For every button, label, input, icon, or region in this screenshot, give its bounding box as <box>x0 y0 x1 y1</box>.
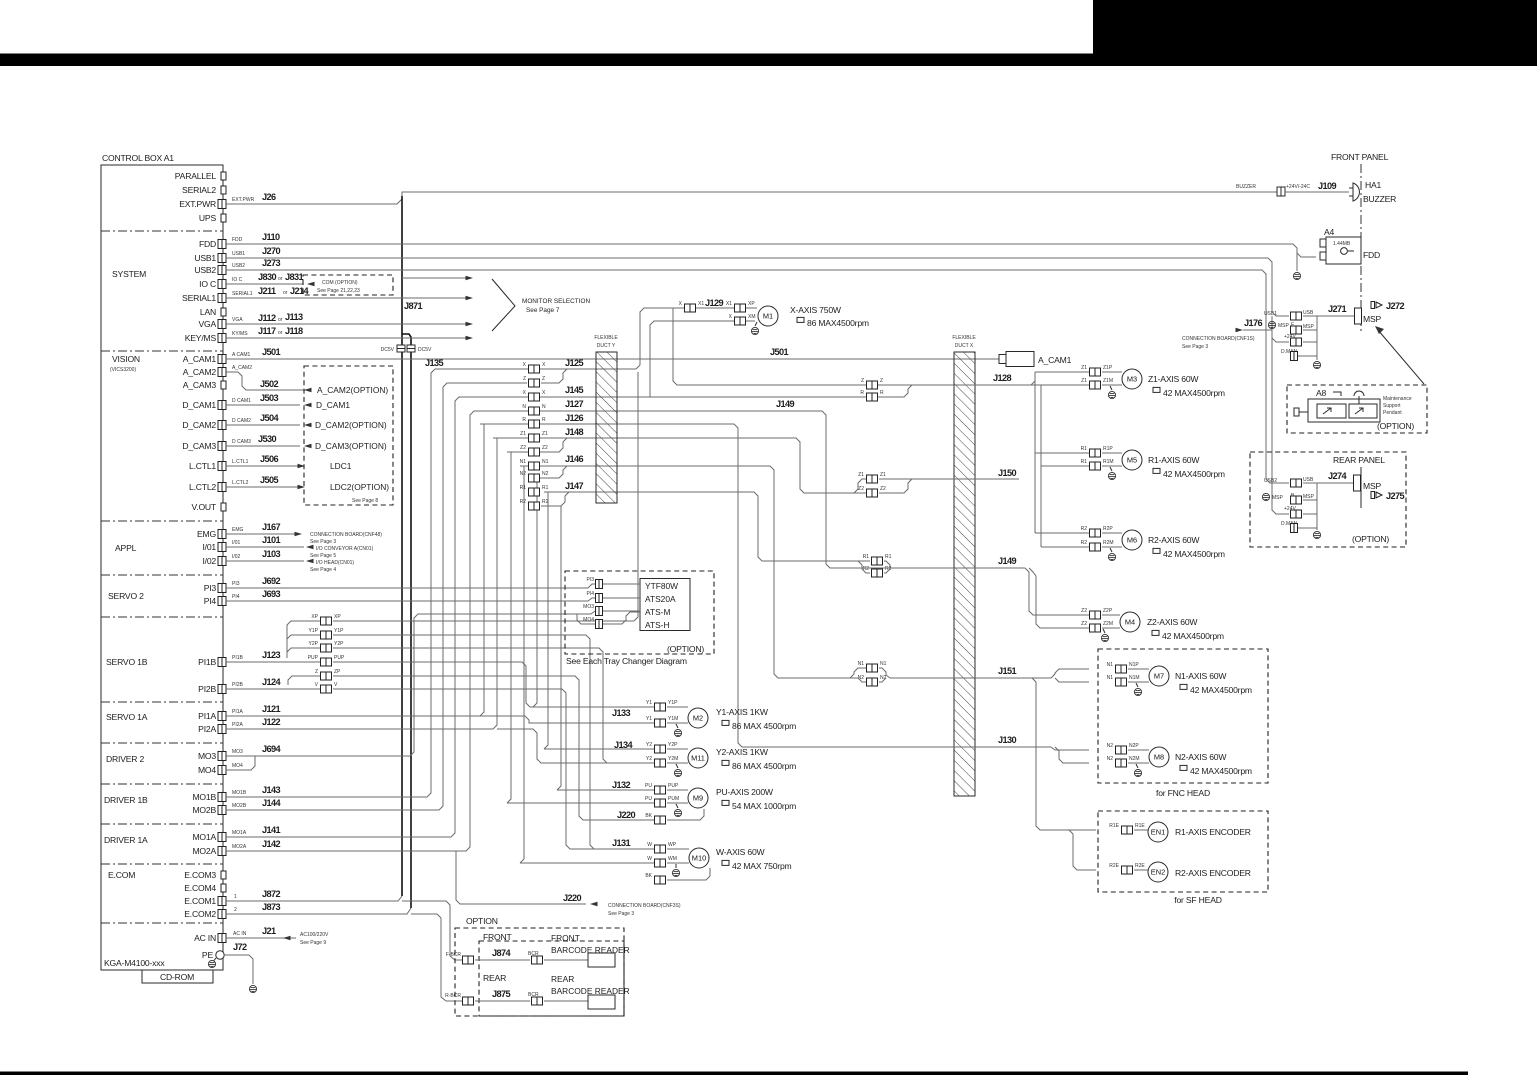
connector Y2-Y2M <box>655 759 666 767</box>
svg-text:J117: J117 <box>258 326 276 336</box>
ground rear left <box>1262 493 1269 500</box>
wire USB2 J273 <box>226 270 1286 483</box>
svg-text:See Page 9: See Page 9 <box>300 940 326 946</box>
svg-text:J147: J147 <box>565 481 584 491</box>
motor M10 W axis <box>689 848 709 868</box>
svg-text:for FNC HEAD: for FNC HEAD <box>1156 788 1210 798</box>
svg-text:MONITOR SELECTION: MONITOR SELECTION <box>522 298 590 305</box>
svg-text:I/02: I/02 <box>232 554 241 560</box>
svg-text:PI2B: PI2B <box>232 682 244 688</box>
svg-text:J132: J132 <box>612 780 631 790</box>
svg-text:or: or <box>283 290 288 296</box>
wire J135/J125 X row <box>435 368 636 370</box>
connector BK brake M10 <box>655 876 666 884</box>
svg-text:D CAM3: D CAM3 <box>232 439 251 445</box>
svg-text:XP: XP <box>334 614 341 620</box>
wire N row J127/J149 upper <box>474 411 950 568</box>
svg-text:42 MAX4500rpm: 42 MAX4500rpm <box>1190 766 1252 776</box>
svg-text:Z2: Z2 <box>520 445 526 451</box>
svg-text:J101: J101 <box>262 535 281 545</box>
wire D_CAM1 J503 <box>226 404 300 406</box>
wire J130 row <box>742 746 1051 748</box>
wire riser PUM <box>507 452 511 803</box>
svg-text:MO2A: MO2A <box>192 846 216 856</box>
svg-text:See Each Tray Changer Diagram: See Each Tray Changer Diagram <box>566 656 687 666</box>
svg-text:I/01: I/01 <box>202 542 216 552</box>
svg-text:CD-ROM: CD-ROM <box>160 972 194 982</box>
svg-text:M10: M10 <box>692 854 706 863</box>
svg-text:EN2: EN2 <box>1151 868 1165 877</box>
svg-text:BK: BK <box>645 813 652 819</box>
svg-text:IO C: IO C <box>199 279 216 289</box>
dashed box COM OPTION <box>303 275 393 295</box>
svg-text:J871: J871 <box>404 301 423 311</box>
svg-text:Y1: Y1 <box>646 716 652 722</box>
ground MSP front <box>1268 321 1275 328</box>
flexible duct X <box>954 352 975 796</box>
svg-text:R1: R1 <box>885 554 892 560</box>
svg-text:J148: J148 <box>565 427 584 437</box>
svg-text:Z: Z <box>523 376 526 382</box>
svg-text:MO4: MO4 <box>583 617 594 623</box>
svg-text:L.CTL1: L.CTL1 <box>189 461 216 471</box>
svg-text:XP: XP <box>748 301 755 307</box>
wire MO4 merge <box>226 756 255 770</box>
connector Y1-Y1P <box>655 703 666 711</box>
wire riser J141 to N row <box>226 397 527 837</box>
svg-text:N2: N2 <box>520 471 527 477</box>
svg-text:Y1P: Y1P <box>309 628 319 634</box>
pendant body <box>1308 399 1380 422</box>
svg-text:R: R <box>880 390 884 396</box>
svg-text:J270: J270 <box>262 246 281 256</box>
wire J150 row <box>879 478 1019 480</box>
wire riser WM <box>520 466 524 863</box>
svg-text:J146: J146 <box>565 454 584 464</box>
svg-text:FLEXIBLE: FLEXIBLE <box>952 335 976 341</box>
svg-text:SERIAL2: SERIAL2 <box>182 185 216 195</box>
svg-text:Support: Support <box>1383 403 1401 409</box>
svg-text:X1: X1 <box>698 301 704 307</box>
svg-text:UPS: UPS <box>199 213 217 223</box>
svg-text:USB1: USB1 <box>232 251 245 257</box>
wire J871 DC5V vertical 1 <box>401 196 403 896</box>
svg-text:DC5V: DC5V <box>381 347 395 353</box>
svg-text:PU: PU <box>645 783 652 789</box>
bus verticals J130 to M8 <box>1051 747 1089 750</box>
svg-text:REAR: REAR <box>483 973 506 983</box>
svg-text:J135: J135 <box>425 358 444 368</box>
wire R row J126 to J130 feed <box>480 424 950 747</box>
pendant arrow to MSP <box>1378 330 1424 384</box>
svg-text:WP: WP <box>668 842 677 848</box>
wire J129 T-drop to J128 row <box>673 308 908 385</box>
svg-text:LDC2(OPTION): LDC2(OPTION) <box>330 482 389 492</box>
svg-text:Z2: Z2 <box>1081 621 1087 627</box>
svg-text:R1E: R1E <box>1109 823 1119 829</box>
wire Y2P row <box>333 648 607 763</box>
svg-text:J693: J693 <box>262 589 281 599</box>
svg-text:J103: J103 <box>262 549 281 559</box>
svg-text:EMG: EMG <box>197 529 216 539</box>
svg-text:(VICS3200): (VICS3200) <box>110 367 136 373</box>
svg-text:Z1: Z1 <box>858 472 864 478</box>
wire FDD shield ground drop <box>1296 253 1298 271</box>
svg-text:M3: M3 <box>1127 375 1137 384</box>
svg-text:KEY/MS: KEY/MS <box>185 333 217 343</box>
svg-text:A8: A8 <box>1316 388 1327 398</box>
svg-text:See Page 8: See Page 8 <box>352 498 378 504</box>
svg-text:PI2B: PI2B <box>198 684 216 694</box>
svg-text:Z1: Z1 <box>1081 365 1087 371</box>
wire EXT.PWR J26 to buzzer <box>226 192 1277 204</box>
svg-text:J109: J109 <box>1318 181 1337 191</box>
tray connector PI3 <box>596 580 603 589</box>
svg-text:D_CAM1: D_CAM1 <box>316 400 350 410</box>
wire J872 continuation to front barcode <box>402 901 462 960</box>
svg-text:MSP: MSP <box>1278 323 1290 329</box>
svg-text:R2P: R2P <box>1103 526 1113 532</box>
motor M11 Y2 axis <box>688 748 708 768</box>
svg-text:MO1B: MO1B <box>192 792 216 802</box>
connector X-XM <box>735 317 746 325</box>
svg-text:J149: J149 <box>998 556 1017 566</box>
svg-text:MO3: MO3 <box>232 749 243 755</box>
svg-text:J127: J127 <box>565 399 584 409</box>
wire D_CAM3 J530 <box>226 445 300 447</box>
svg-text:J506: J506 <box>260 454 279 464</box>
wire D_CAM2 J504 <box>226 424 300 426</box>
svg-text:FRONT: FRONT <box>551 933 580 943</box>
front panel ground <box>1313 361 1320 368</box>
wire Z2 row <box>507 438 567 452</box>
svg-text:AC IN: AC IN <box>194 933 216 943</box>
svg-text:J503: J503 <box>260 393 279 403</box>
svg-text:Y1M: Y1M <box>668 716 678 722</box>
svg-text:MO2A: MO2A <box>232 844 247 850</box>
svg-text:D_CAM1: D_CAM1 <box>182 400 216 410</box>
bus vertical to encoders <box>1032 678 1096 830</box>
svg-text:USB: USB <box>1303 310 1314 316</box>
svg-text:Y2P: Y2P <box>309 641 319 647</box>
svg-text:J275: J275 <box>1386 491 1405 501</box>
motor M4 Z2 axis <box>1090 611 1101 619</box>
wire L.CTL1 J506 <box>226 465 300 467</box>
svg-text:J126: J126 <box>565 413 584 423</box>
wire A_CAM1 J501 long row <box>226 358 999 360</box>
svg-text:CONNECTION BOARD(CNF1S): CONNECTION BOARD(CNF1S) <box>1182 336 1255 342</box>
svg-text:N1: N1 <box>520 459 527 465</box>
svg-text:D_CAM3: D_CAM3 <box>182 441 216 451</box>
svg-text:N1: N1 <box>1107 662 1114 668</box>
svg-text:J113: J113 <box>285 312 303 322</box>
wire R merge up to J128 row <box>866 385 912 397</box>
svg-text:N1P: N1P <box>1129 662 1139 668</box>
svg-text:R1: R1 <box>1081 446 1088 452</box>
svg-text:E.COM1: E.COM1 <box>184 896 216 906</box>
svg-text:M4: M4 <box>1125 618 1135 627</box>
svg-text:J128: J128 <box>993 373 1012 383</box>
svg-text:PU: PU <box>645 796 652 802</box>
wire riser J121 to Y1M <box>226 424 484 716</box>
svg-text:J122: J122 <box>262 717 281 727</box>
wire J72 to frame ground <box>224 955 253 984</box>
svg-text:42 MAX4500rpm: 42 MAX4500rpm <box>1163 388 1225 398</box>
svg-text:R2: R2 <box>1081 526 1088 532</box>
svg-text:MO1A: MO1A <box>192 832 216 842</box>
rear panel boundary line <box>1360 467 1362 508</box>
svg-text:R2: R2 <box>520 499 527 505</box>
svg-text:42 MAX4500rpm: 42 MAX4500rpm <box>1162 631 1224 641</box>
wire J873 continuation to rear barcode <box>411 914 462 1001</box>
svg-text:J271: J271 <box>1328 304 1347 314</box>
svg-text:PI4: PI4 <box>204 596 217 606</box>
wire KEY/MS with arrow <box>226 337 468 339</box>
svg-text:N1: N1 <box>542 459 549 465</box>
svg-text:IO C: IO C <box>232 277 243 283</box>
wire IO C J830 to COM option <box>226 283 303 285</box>
svg-text:Y2M: Y2M <box>668 756 678 762</box>
svg-text:X1: X1 <box>726 301 732 307</box>
svg-text:W: W <box>647 856 652 862</box>
svg-text:PUP: PUP <box>334 655 345 661</box>
svg-text:Z2: Z2 <box>1081 608 1087 614</box>
svg-text:D_CAM2: D_CAM2 <box>182 420 216 430</box>
svg-text:J501: J501 <box>262 347 281 357</box>
connector R-R mid <box>867 393 878 401</box>
svg-text:Z2: Z2 <box>542 445 548 451</box>
svg-text:USB2: USB2 <box>232 263 245 269</box>
svg-text:I/02: I/02 <box>202 556 216 566</box>
svg-text:42 MAX4500rpm: 42 MAX4500rpm <box>1163 549 1225 559</box>
svg-text:PE: PE <box>202 950 214 960</box>
wire riser J144 to X bold row <box>226 383 527 810</box>
encoder EN1 <box>1122 826 1133 834</box>
svg-text:KGA-M4100-xxx: KGA-M4100-xxx <box>104 958 165 968</box>
svg-text:See Page 3: See Page 3 <box>310 539 336 545</box>
svg-text:MO3: MO3 <box>583 604 594 610</box>
wire riser N2 row down <box>533 478 537 707</box>
svg-text:M1: M1 <box>763 312 773 321</box>
component A_CAM1 camera <box>999 355 1006 364</box>
nest inline connectors column <box>529 365 540 373</box>
svg-text:R-BCR: R-BCR <box>445 993 461 999</box>
svg-text:J176: J176 <box>1244 318 1263 328</box>
svg-text:N2-AXIS 60W: N2-AXIS 60W <box>1175 752 1227 762</box>
connector J275 <box>1371 492 1382 499</box>
connector Y2-Y2P <box>655 745 666 753</box>
svg-text:J874: J874 <box>492 948 512 958</box>
svg-text:J143: J143 <box>262 785 281 795</box>
wire I/01 J101 <box>226 546 304 548</box>
svg-text:DC5V: DC5V <box>418 347 432 353</box>
svg-text:R2: R2 <box>863 566 870 572</box>
svg-text:Z2P: Z2P <box>1103 608 1113 614</box>
connector Z-Z mid <box>867 381 878 389</box>
svg-text:XM: XM <box>748 314 756 320</box>
svg-text:J141: J141 <box>262 825 281 835</box>
svg-text:R2-AXIS 60W: R2-AXIS 60W <box>1148 535 1200 545</box>
tray connector MO3 <box>596 607 603 616</box>
connector Y1-Y1M <box>655 719 666 727</box>
svg-text:SERIAL1: SERIAL1 <box>182 293 216 303</box>
svg-text:FRONT: FRONT <box>483 932 513 942</box>
wire riser R2 row down <box>557 506 561 790</box>
svg-text:REAR: REAR <box>551 974 574 984</box>
wire J124 PI2B with branch <box>226 688 322 690</box>
svg-text:86 MAX 4500rpm: 86 MAX 4500rpm <box>732 721 796 731</box>
svg-text:M11: M11 <box>691 754 705 763</box>
svg-text:VISION: VISION <box>112 354 140 364</box>
buzzer HA1 <box>1353 183 1359 201</box>
svg-text:J505: J505 <box>260 475 279 485</box>
svg-text:J131: J131 <box>612 838 631 848</box>
wire riser J143 to Z row <box>226 369 435 797</box>
svg-text:PI3: PI3 <box>204 583 217 593</box>
svg-text:EXT.PWR: EXT.PWR <box>232 197 255 203</box>
wire AC IN J21 <box>226 937 296 939</box>
svg-text:Z: Z <box>542 376 545 382</box>
connector R2-R2 mid <box>872 569 883 577</box>
svg-text:AC100/220V: AC100/220V <box>300 932 329 938</box>
motor M6 R2 axis <box>1090 529 1101 537</box>
wire J151 row <box>879 668 890 678</box>
svg-text:BUZZER: BUZZER <box>1236 184 1256 190</box>
wire Z row to XM riser <box>541 369 567 383</box>
svg-text:MO2B: MO2B <box>192 805 216 815</box>
svg-text:J21: J21 <box>262 926 276 936</box>
svg-text:42 MAX4500rpm: 42 MAX4500rpm <box>1163 469 1225 479</box>
svg-text:Y2P: Y2P <box>334 641 344 647</box>
svg-text:J872: J872 <box>262 889 281 899</box>
svg-text:J110: J110 <box>262 232 280 242</box>
svg-text:MO1A: MO1A <box>232 830 247 836</box>
svg-text:J501: J501 <box>770 347 789 357</box>
svg-text:J530: J530 <box>258 434 277 444</box>
svg-text:Z1-AXIS 60W: Z1-AXIS 60W <box>1148 374 1199 384</box>
wire N2 row <box>533 466 567 478</box>
svg-text:D_CAM2(OPTION): D_CAM2(OPTION) <box>315 420 387 430</box>
svg-text:PI1A: PI1A <box>198 711 216 721</box>
motor M9 PU axis <box>688 788 708 808</box>
svg-text:VGA: VGA <box>232 317 243 323</box>
svg-text:DRIVER 2: DRIVER 2 <box>106 754 144 764</box>
bus vertical right 2 <box>1040 385 1042 547</box>
svg-text:Z: Z <box>861 378 864 384</box>
svg-text:N2: N2 <box>542 471 549 477</box>
svg-text:See Page 4: See Page 4 <box>310 567 336 573</box>
connector R1-R1 mid <box>872 557 883 565</box>
svg-text:USB1: USB1 <box>194 253 216 263</box>
svg-text:N1: N1 <box>858 661 865 667</box>
svg-text:CONNECTION BOARD(CNF3S): CONNECTION BOARD(CNF3S) <box>608 903 681 909</box>
connector DC5V left <box>397 345 405 352</box>
svg-text:ATS-H: ATS-H <box>645 620 670 630</box>
svg-text:86 MAX 4500rpm: 86 MAX 4500rpm <box>732 761 796 771</box>
svg-text:Z2-AXIS 60W: Z2-AXIS 60W <box>1147 617 1198 627</box>
svg-text:EXT.PWR: EXT.PWR <box>179 199 216 209</box>
svg-text:SERVO 2: SERVO 2 <box>108 591 144 601</box>
wire J176 connection board <box>1236 328 1244 333</box>
svg-text:WM: WM <box>668 856 677 862</box>
motor M1 X axis <box>758 306 778 326</box>
connector X-X1 <box>685 304 696 312</box>
svg-text:V.OUT: V.OUT <box>192 502 217 512</box>
svg-text:L.CTL1: L.CTL1 <box>232 459 249 465</box>
svg-text:86 MAX4500rpm: 86 MAX4500rpm <box>807 318 869 328</box>
wire PI4 J693 to tray changer <box>226 598 595 601</box>
svg-text:PI4: PI4 <box>232 594 240 600</box>
wire J128 row through duct X <box>879 384 1031 386</box>
connector BK brake M9 <box>655 816 666 824</box>
svg-text:DRIVER 1A: DRIVER 1A <box>104 835 148 845</box>
servo 1B inline connectors <box>321 617 332 625</box>
svg-text:F-BCR: F-BCR <box>446 952 462 958</box>
svg-text:I/O HEAD(CN01): I/O HEAD(CN01) <box>316 560 354 566</box>
svg-text:MSP: MSP <box>1272 495 1284 501</box>
svg-text:N1: N1 <box>1107 675 1114 681</box>
svg-text:D_CAM3(OPTION): D_CAM3(OPTION) <box>315 441 387 451</box>
svg-text:PARALLEL: PARALLEL <box>175 171 217 181</box>
svg-text:J121: J121 <box>262 704 281 714</box>
svg-text:Z2: Z2 <box>858 486 864 492</box>
page header black block <box>1093 0 1537 66</box>
svg-text:J167: J167 <box>262 522 281 532</box>
dashed box maintenance pendant <box>1287 385 1427 433</box>
connector J272 <box>1371 302 1382 309</box>
svg-text:ATS20A: ATS20A <box>645 594 676 604</box>
svg-text:M5: M5 <box>1127 456 1137 465</box>
svg-text:YTF80W: YTF80W <box>645 581 678 591</box>
svg-text:ZP: ZP <box>334 669 341 675</box>
svg-text:I/01: I/01 <box>232 540 241 546</box>
bus vertical right 1 <box>1034 372 1036 533</box>
ground below M1 <box>755 322 757 326</box>
svg-text:R: R <box>542 417 546 423</box>
svg-text:PI1B: PI1B <box>232 655 244 661</box>
svg-text:or: or <box>278 317 283 323</box>
svg-text:See Page 5: See Page 5 <box>310 553 336 559</box>
front panel boundary line <box>1360 164 1362 332</box>
wire riser R1 row down <box>544 492 548 749</box>
svg-text:Y1: Y1 <box>646 700 652 706</box>
svg-text:MO4: MO4 <box>232 763 243 769</box>
encoder EN2 <box>1122 866 1133 874</box>
svg-text:J134: J134 <box>614 740 634 750</box>
svg-text:HA1: HA1 <box>1365 180 1382 190</box>
wire PI3 J692 to tray changer <box>226 584 595 588</box>
svg-text:J211: J211 <box>258 286 276 296</box>
svg-text:Y2-AXIS 1KW: Y2-AXIS 1KW <box>716 747 769 757</box>
svg-text:MO3: MO3 <box>198 751 216 761</box>
svg-text:N2P: N2P <box>1129 743 1139 749</box>
svg-text:L.CTL2: L.CTL2 <box>189 482 216 492</box>
svg-text:REAR PANEL: REAR PANEL <box>1333 455 1385 465</box>
svg-text:MSP: MSP <box>1363 314 1381 324</box>
svg-text:See Page 21,22,23: See Page 21,22,23 <box>317 288 360 294</box>
svg-text:USB1: USB1 <box>1264 311 1277 317</box>
svg-text:Y1P: Y1P <box>668 700 678 706</box>
svg-text:BUZZER: BUZZER <box>1363 194 1396 204</box>
wire ZP row to brake row <box>333 676 654 820</box>
wire XP row <box>333 620 634 622</box>
wire J123 PI1B with branch <box>226 661 322 663</box>
svg-text:MSP: MSP <box>1303 324 1315 330</box>
svg-text:J274: J274 <box>1328 471 1348 481</box>
svg-text:(OPTION): (OPTION) <box>667 644 704 654</box>
svg-text:SYSTEM: SYSTEM <box>112 269 146 279</box>
svg-text:AC IN: AC IN <box>233 931 247 937</box>
